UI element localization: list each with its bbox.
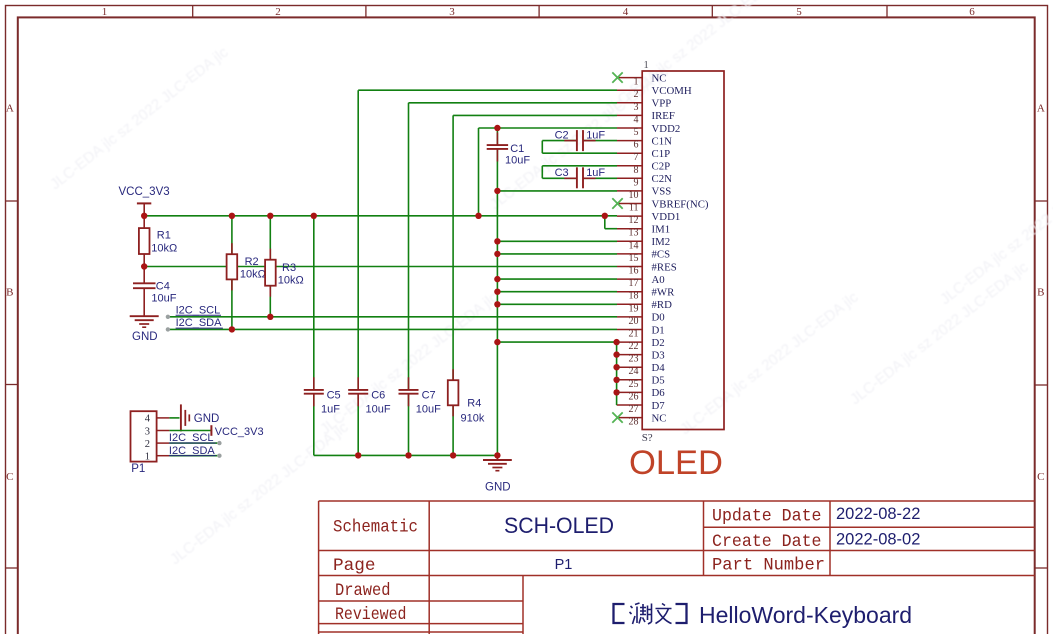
svg-text:16: 16: [629, 266, 639, 277]
svg-text:15: 15: [629, 253, 639, 264]
wire R4 bottom lead: [452, 405, 454, 455]
svg-text:6: 6: [969, 6, 975, 18]
svg-text:JLC-EDA jlc sz 2022 JLC-EDA jl: JLC-EDA jlc sz 2022 JLC-EDA jlc: [847, 258, 1032, 408]
svg-text:10uF: 10uF: [366, 404, 391, 416]
ground GND (C4): [130, 316, 159, 343]
svg-text:Update Date: Update Date: [712, 507, 822, 527]
wire P1 pin1 I2C_SDA: [169, 445, 222, 458]
svg-text:A: A: [6, 103, 14, 115]
wire pin8 C2P: [542, 166, 617, 179]
connector P1 pin 2: [145, 439, 170, 450]
svg-text:D2: D2: [652, 337, 665, 349]
svg-text:10: 10: [629, 190, 639, 201]
svg-text:P1: P1: [555, 557, 573, 573]
svg-text:R4: R4: [467, 398, 481, 410]
svg-text:28: 28: [629, 417, 639, 428]
svg-text:C: C: [1037, 471, 1044, 483]
capacitor C2: [555, 130, 606, 152]
title block labels: [333, 507, 825, 626]
svg-text:7: 7: [634, 152, 639, 163]
connector P1 pin 1: [145, 452, 170, 463]
label OLED: [629, 444, 723, 482]
wire pin18 #WR to VSS: [497, 291, 617, 293]
svg-text:18: 18: [629, 291, 639, 302]
pin 9 C2N: [617, 173, 672, 188]
svg-text:27: 27: [629, 404, 639, 415]
resistor R4: [448, 369, 485, 424]
pin 17 A0: [617, 274, 665, 289]
svg-text:20: 20: [629, 316, 639, 327]
zone row letters: [6, 103, 1045, 484]
svg-text:2022-08-02: 2022-08-02: [836, 531, 920, 549]
svg-text:C1P: C1P: [652, 148, 671, 160]
pin 3 VPP: [617, 98, 671, 113]
svg-text:C2: C2: [555, 130, 569, 142]
pin 4 IREF: [617, 110, 675, 125]
junction dot R1/#RES/C4 node: [141, 263, 147, 269]
svg-text:VCC_3V3: VCC_3V3: [119, 186, 170, 198]
capacitor C1: [487, 133, 531, 167]
svg-text:IM2: IM2: [652, 236, 671, 248]
pin 2 VCOMH: [617, 85, 692, 100]
wire D2-D7 tie vertical: [616, 342, 618, 405]
svg-text:9: 9: [634, 177, 639, 188]
svg-text:C7: C7: [422, 390, 436, 402]
svg-text:VBREF(NC): VBREF(NC): [652, 198, 709, 210]
svg-text:6: 6: [634, 140, 639, 151]
ground GND (P1, rotated): [181, 404, 219, 431]
svg-text:1: 1: [644, 60, 649, 71]
svg-text:C1N: C1N: [652, 135, 673, 147]
svg-text:IREF: IREF: [652, 110, 675, 122]
capacitor C6: [348, 377, 391, 415]
wire C7 bottom lead: [408, 394, 410, 456]
pin 24 D4: [617, 362, 665, 377]
pin 22 D2: [617, 337, 665, 352]
wire VCC bus: [144, 215, 617, 217]
junction dots D3-D6 tie: [613, 351, 619, 395]
no-connect X pin11: [612, 198, 622, 208]
svg-text:10uF: 10uF: [416, 404, 441, 416]
wire C6 bottom lead: [357, 394, 359, 456]
wire pin9 C2N loop: [542, 177, 617, 179]
wire pin2 VCOMH to C6: [358, 90, 617, 390]
svg-text:D0: D0: [652, 312, 665, 324]
svg-text:1: 1: [102, 6, 108, 18]
pin 19 #RD: [617, 299, 672, 314]
svg-text:3: 3: [449, 6, 455, 18]
pin 11 VBREF(NC): [617, 198, 709, 213]
svg-text:HelloWord-Keyboard: HelloWord-Keyboard: [699, 602, 912, 628]
pin 10 VSS: [617, 186, 671, 201]
svg-text:4: 4: [623, 6, 629, 18]
svg-text:C2P: C2P: [652, 161, 671, 173]
pin 14 IM2: [617, 236, 670, 251]
connector P1 pin 4: [145, 414, 170, 425]
svg-text:GND: GND: [485, 482, 511, 494]
svg-text:D1: D1: [652, 324, 665, 336]
svg-text:Page: Page: [333, 556, 376, 576]
svg-text:1: 1: [145, 452, 150, 463]
svg-text:I2C_SCL: I2C_SCL: [176, 304, 221, 316]
svg-text:910k: 910k: [461, 413, 485, 425]
svg-text:VPP: VPP: [652, 98, 672, 110]
svg-text:24: 24: [629, 366, 639, 377]
svg-text:Part Number: Part Number: [712, 556, 825, 576]
wire C5 branch from VCC bus: [313, 216, 315, 456]
svg-text:C: C: [6, 471, 13, 483]
svg-text:VCOMH: VCOMH: [652, 85, 692, 97]
wire pin6 C1N loop: [542, 141, 617, 154]
svg-text:25: 25: [629, 379, 639, 390]
pin 21 D1: [617, 324, 665, 339]
wire pin4 IREF to R4: [453, 115, 617, 380]
svg-text:13: 13: [629, 228, 639, 239]
svg-text:Create Date: Create Date: [712, 532, 822, 552]
svg-text:GND: GND: [132, 331, 158, 343]
svg-text:VCC_3V3: VCC_3V3: [215, 426, 264, 438]
svg-text:NC: NC: [652, 412, 667, 424]
svg-text:VSS: VSS: [652, 186, 672, 198]
svg-text:2: 2: [275, 6, 281, 18]
svg-text:4: 4: [634, 114, 639, 125]
svg-text:C2N: C2N: [652, 173, 673, 185]
pin 28 NC: [617, 412, 667, 427]
pin 23 D3: [617, 349, 665, 364]
svg-text:3: 3: [634, 102, 639, 113]
svg-text:23: 23: [629, 354, 639, 365]
junction dot R2 on I2C_SDA: [229, 326, 235, 332]
svg-text:#RES: #RES: [652, 261, 677, 273]
svg-text:NC: NC: [652, 72, 667, 84]
wire pin22 D2 to VSS: [497, 341, 616, 343]
svg-text:5: 5: [634, 127, 639, 138]
wire P1 pin2 I2C_SCL: [169, 432, 222, 445]
svg-text:R1: R1: [157, 230, 171, 242]
svg-text:19: 19: [629, 303, 639, 314]
wire #RES net (R1 to pin16): [144, 266, 617, 268]
net label I2C_SDA: [166, 317, 223, 331]
capacitor C7: [399, 377, 442, 415]
wire pin10 VSS: [497, 190, 617, 192]
svg-text:D4: D4: [652, 362, 666, 374]
svg-text:22: 22: [629, 341, 639, 352]
svg-text:IM1: IM1: [652, 224, 671, 236]
svg-text:10kΩ: 10kΩ: [151, 242, 177, 254]
ground GND (bottom bus): [483, 455, 512, 493]
capacitor C3: [555, 167, 606, 188]
svg-text:26: 26: [629, 391, 639, 402]
pin 15 #CS: [617, 249, 670, 264]
svg-text:Reviewed: Reviewed: [335, 605, 407, 625]
pin 25 D5: [617, 375, 665, 390]
svg-text:C3: C3: [555, 167, 569, 179]
svg-text:I2C_SDA: I2C_SDA: [169, 445, 216, 457]
power flag VCC_3V3 top: [119, 186, 170, 216]
power flag VCC_3V3 (P1): [211, 425, 263, 438]
wire pin7 C1P: [542, 152, 617, 154]
no-connect X pin28: [612, 412, 622, 422]
svg-text:D3: D3: [652, 349, 665, 361]
svg-text:D6: D6: [652, 387, 666, 399]
resistor R1: [139, 216, 177, 267]
pin 26 D6: [617, 387, 665, 402]
title block grid: [319, 501, 1035, 634]
svg-text:C6: C6: [371, 390, 385, 402]
svg-text:10uF: 10uF: [151, 292, 176, 304]
svg-text:#WR: #WR: [652, 287, 676, 299]
svg-text:1uF: 1uF: [321, 404, 340, 416]
svg-text:#CS: #CS: [652, 249, 671, 261]
wire pin12 VDD1 branch to pin13 IM1: [605, 216, 617, 229]
wire pin5 VDD2 to VCC bus: [479, 128, 618, 216]
project title HelloWord-Keyboard: [614, 602, 913, 628]
svg-text:17: 17: [629, 278, 639, 289]
svg-text:2022-08-22: 2022-08-22: [836, 505, 920, 523]
wire P1 pin4 to GND: [169, 417, 179, 419]
svg-text:C4: C4: [156, 281, 170, 293]
svg-text:JLC-EDA jlc sz 2022 JLC-EDA jl: JLC-EDA jlc sz 2022 JLC-EDA jlc: [47, 43, 232, 193]
svg-text:C1: C1: [510, 143, 524, 155]
connector P1 body: [131, 411, 157, 475]
svg-text:1uF: 1uF: [586, 167, 605, 179]
connector P1 pin 3: [145, 426, 170, 437]
svg-text:D5: D5: [652, 375, 665, 387]
svg-text:Drawed: Drawed: [335, 581, 391, 601]
capacitor C5: [304, 377, 341, 415]
pin 12 VDD1: [617, 211, 680, 226]
svg-text:Schematic: Schematic: [333, 518, 418, 538]
junction dots VSS vertical: [494, 125, 500, 345]
svg-text:SCH-OLED: SCH-OLED: [504, 513, 614, 538]
net label I2C_SCL: [166, 304, 221, 319]
wire pin19 #RD to VSS: [497, 303, 617, 305]
junction dots VCC bus: [141, 213, 608, 219]
pin 8 C2P: [617, 161, 670, 176]
svg-text:2: 2: [145, 439, 150, 450]
pin 7 C1P: [617, 148, 670, 163]
svg-text:D7: D7: [652, 400, 666, 412]
svg-text:12: 12: [629, 215, 639, 226]
svg-text:S?: S?: [642, 432, 653, 444]
title block values: [504, 505, 920, 573]
svg-text:5: 5: [796, 6, 802, 18]
svg-text:10kΩ: 10kΩ: [240, 269, 266, 281]
svg-text:21: 21: [629, 329, 639, 340]
junction dot R3 on I2C_SCL: [267, 314, 273, 320]
svg-text:8: 8: [634, 165, 639, 176]
wire P1 pin3 to VCC_3V3: [169, 430, 211, 432]
svg-text:2: 2: [634, 89, 639, 100]
svg-text:3: 3: [145, 426, 150, 437]
OLED display module S? body: [642, 60, 724, 444]
svg-text:P1: P1: [131, 463, 145, 475]
resistor R3: [265, 216, 304, 317]
resistor R2: [227, 216, 266, 330]
svg-text:10kΩ: 10kΩ: [278, 274, 304, 286]
wire ground bus bottom: [314, 454, 498, 456]
pin 16 #RES: [617, 261, 677, 276]
svg-text:11: 11: [629, 203, 639, 214]
pin 20 D0: [617, 312, 665, 327]
pin 6 C1N: [617, 135, 672, 150]
svg-text:#RD: #RD: [652, 299, 673, 311]
svg-text:VDD1: VDD1: [652, 211, 681, 223]
svg-text:1uF: 1uF: [586, 130, 605, 142]
pin 13 IM1: [617, 224, 670, 239]
zone column numbers: [102, 6, 976, 18]
pin 5 VDD2: [617, 123, 680, 138]
svg-text:R2: R2: [245, 256, 259, 268]
svg-text:1: 1: [634, 77, 639, 88]
svg-text:A0: A0: [652, 274, 665, 286]
wire pin14 IM2 to VSS: [497, 240, 617, 242]
wire pin15 #CS to VSS: [497, 253, 617, 255]
svg-text:B: B: [6, 287, 13, 299]
pin 27 D7: [617, 400, 665, 415]
junction dots ground bus: [355, 452, 501, 458]
svg-text:14: 14: [629, 240, 639, 251]
svg-text:A: A: [1037, 103, 1045, 115]
pin 1 NC: [617, 72, 667, 87]
svg-text:I2C_SCL: I2C_SCL: [169, 432, 214, 444]
svg-text:VDD2: VDD2: [652, 123, 681, 135]
svg-text:R3: R3: [282, 262, 296, 274]
svg-text:4: 4: [145, 414, 151, 425]
wire pin3 VPP to C7: [409, 103, 618, 390]
wire I2C_SDA (to pin21 D1): [168, 328, 617, 330]
svg-text:B: B: [1037, 287, 1044, 299]
pin 18 #WR: [617, 287, 675, 302]
wire VSS vertical (C1 bottom to ground bus): [496, 128, 498, 455]
wire pin17 A0 to VSS: [497, 278, 617, 280]
wire I2C_SCL (to pin20 D0): [168, 316, 617, 318]
svg-text:I2C_SDA: I2C_SDA: [176, 317, 223, 329]
svg-text:GND: GND: [194, 413, 220, 425]
svg-text:C5: C5: [327, 390, 341, 402]
no-connect X pin1: [612, 72, 622, 82]
svg-text:OLED: OLED: [629, 444, 723, 482]
junction dot pin22 tie corner: [613, 339, 619, 345]
svg-text:10uF: 10uF: [505, 155, 530, 167]
capacitor C4: [133, 267, 177, 317]
